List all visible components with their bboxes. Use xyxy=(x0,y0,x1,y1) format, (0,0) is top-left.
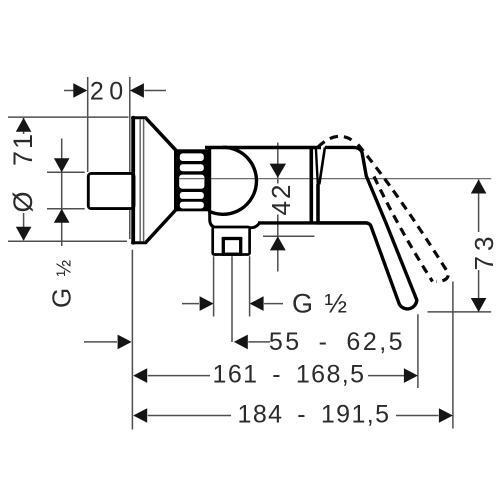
svg-text:73: 73 xyxy=(469,232,499,271)
svg-text:Ø 71: Ø 71 xyxy=(8,132,38,213)
svg-text:161 - 168,5: 161 - 168,5 xyxy=(213,361,366,389)
svg-text:184 - 191,5: 184 - 191,5 xyxy=(238,401,391,429)
svg-text:42: 42 xyxy=(266,183,296,216)
svg-text:G ½: G ½ xyxy=(292,289,349,319)
svg-text:55 - 62,5: 55 - 62,5 xyxy=(269,328,405,356)
svg-text:20: 20 xyxy=(90,78,129,106)
svg-text:G ½: G ½ xyxy=(46,258,76,308)
